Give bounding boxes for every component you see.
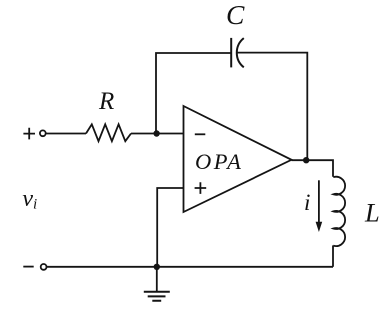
current arrow i line	[318, 180, 320, 223]
wire resistor to op-amp	[131, 133, 184, 135]
node output dot	[303, 157, 309, 163]
node bottom dot	[154, 264, 160, 270]
current arrow i head	[316, 222, 323, 232]
wire input left	[46, 133, 86, 135]
wire output	[292, 160, 334, 177]
svg-text:vi: vi	[22, 186, 37, 213]
wire feedback top-left	[156, 53, 231, 134]
svg-text:R: R	[98, 88, 114, 115]
op-amp U1 minus sign	[195, 133, 206, 135]
resistor R1	[86, 124, 131, 141]
op-amp U1 triangle	[184, 106, 292, 212]
ground stem	[156, 267, 158, 292]
wire noninverting input	[157, 188, 183, 267]
svg-text:OPA: OPA	[195, 149, 243, 174]
svg-text:i: i	[304, 190, 310, 215]
ground bars	[144, 292, 170, 301]
svg-text:C: C	[226, 0, 245, 30]
wire inductor bottom	[332, 245, 334, 266]
terminal plus sign	[23, 128, 35, 140]
node inverting input dot	[153, 130, 159, 136]
inductor L1 coils	[333, 177, 345, 246]
capacitor C1 left plate	[230, 38, 232, 68]
terminal minus dash	[23, 266, 33, 268]
terminal minus circle	[41, 264, 47, 270]
svg-text:L: L	[364, 197, 380, 227]
capacitor C1 curved plate	[237, 38, 244, 67]
op-amp U1 plus sign	[195, 182, 207, 194]
wire bottom	[47, 266, 333, 268]
terminal plus circle	[40, 130, 46, 136]
wire feedback top-right	[237, 53, 307, 161]
